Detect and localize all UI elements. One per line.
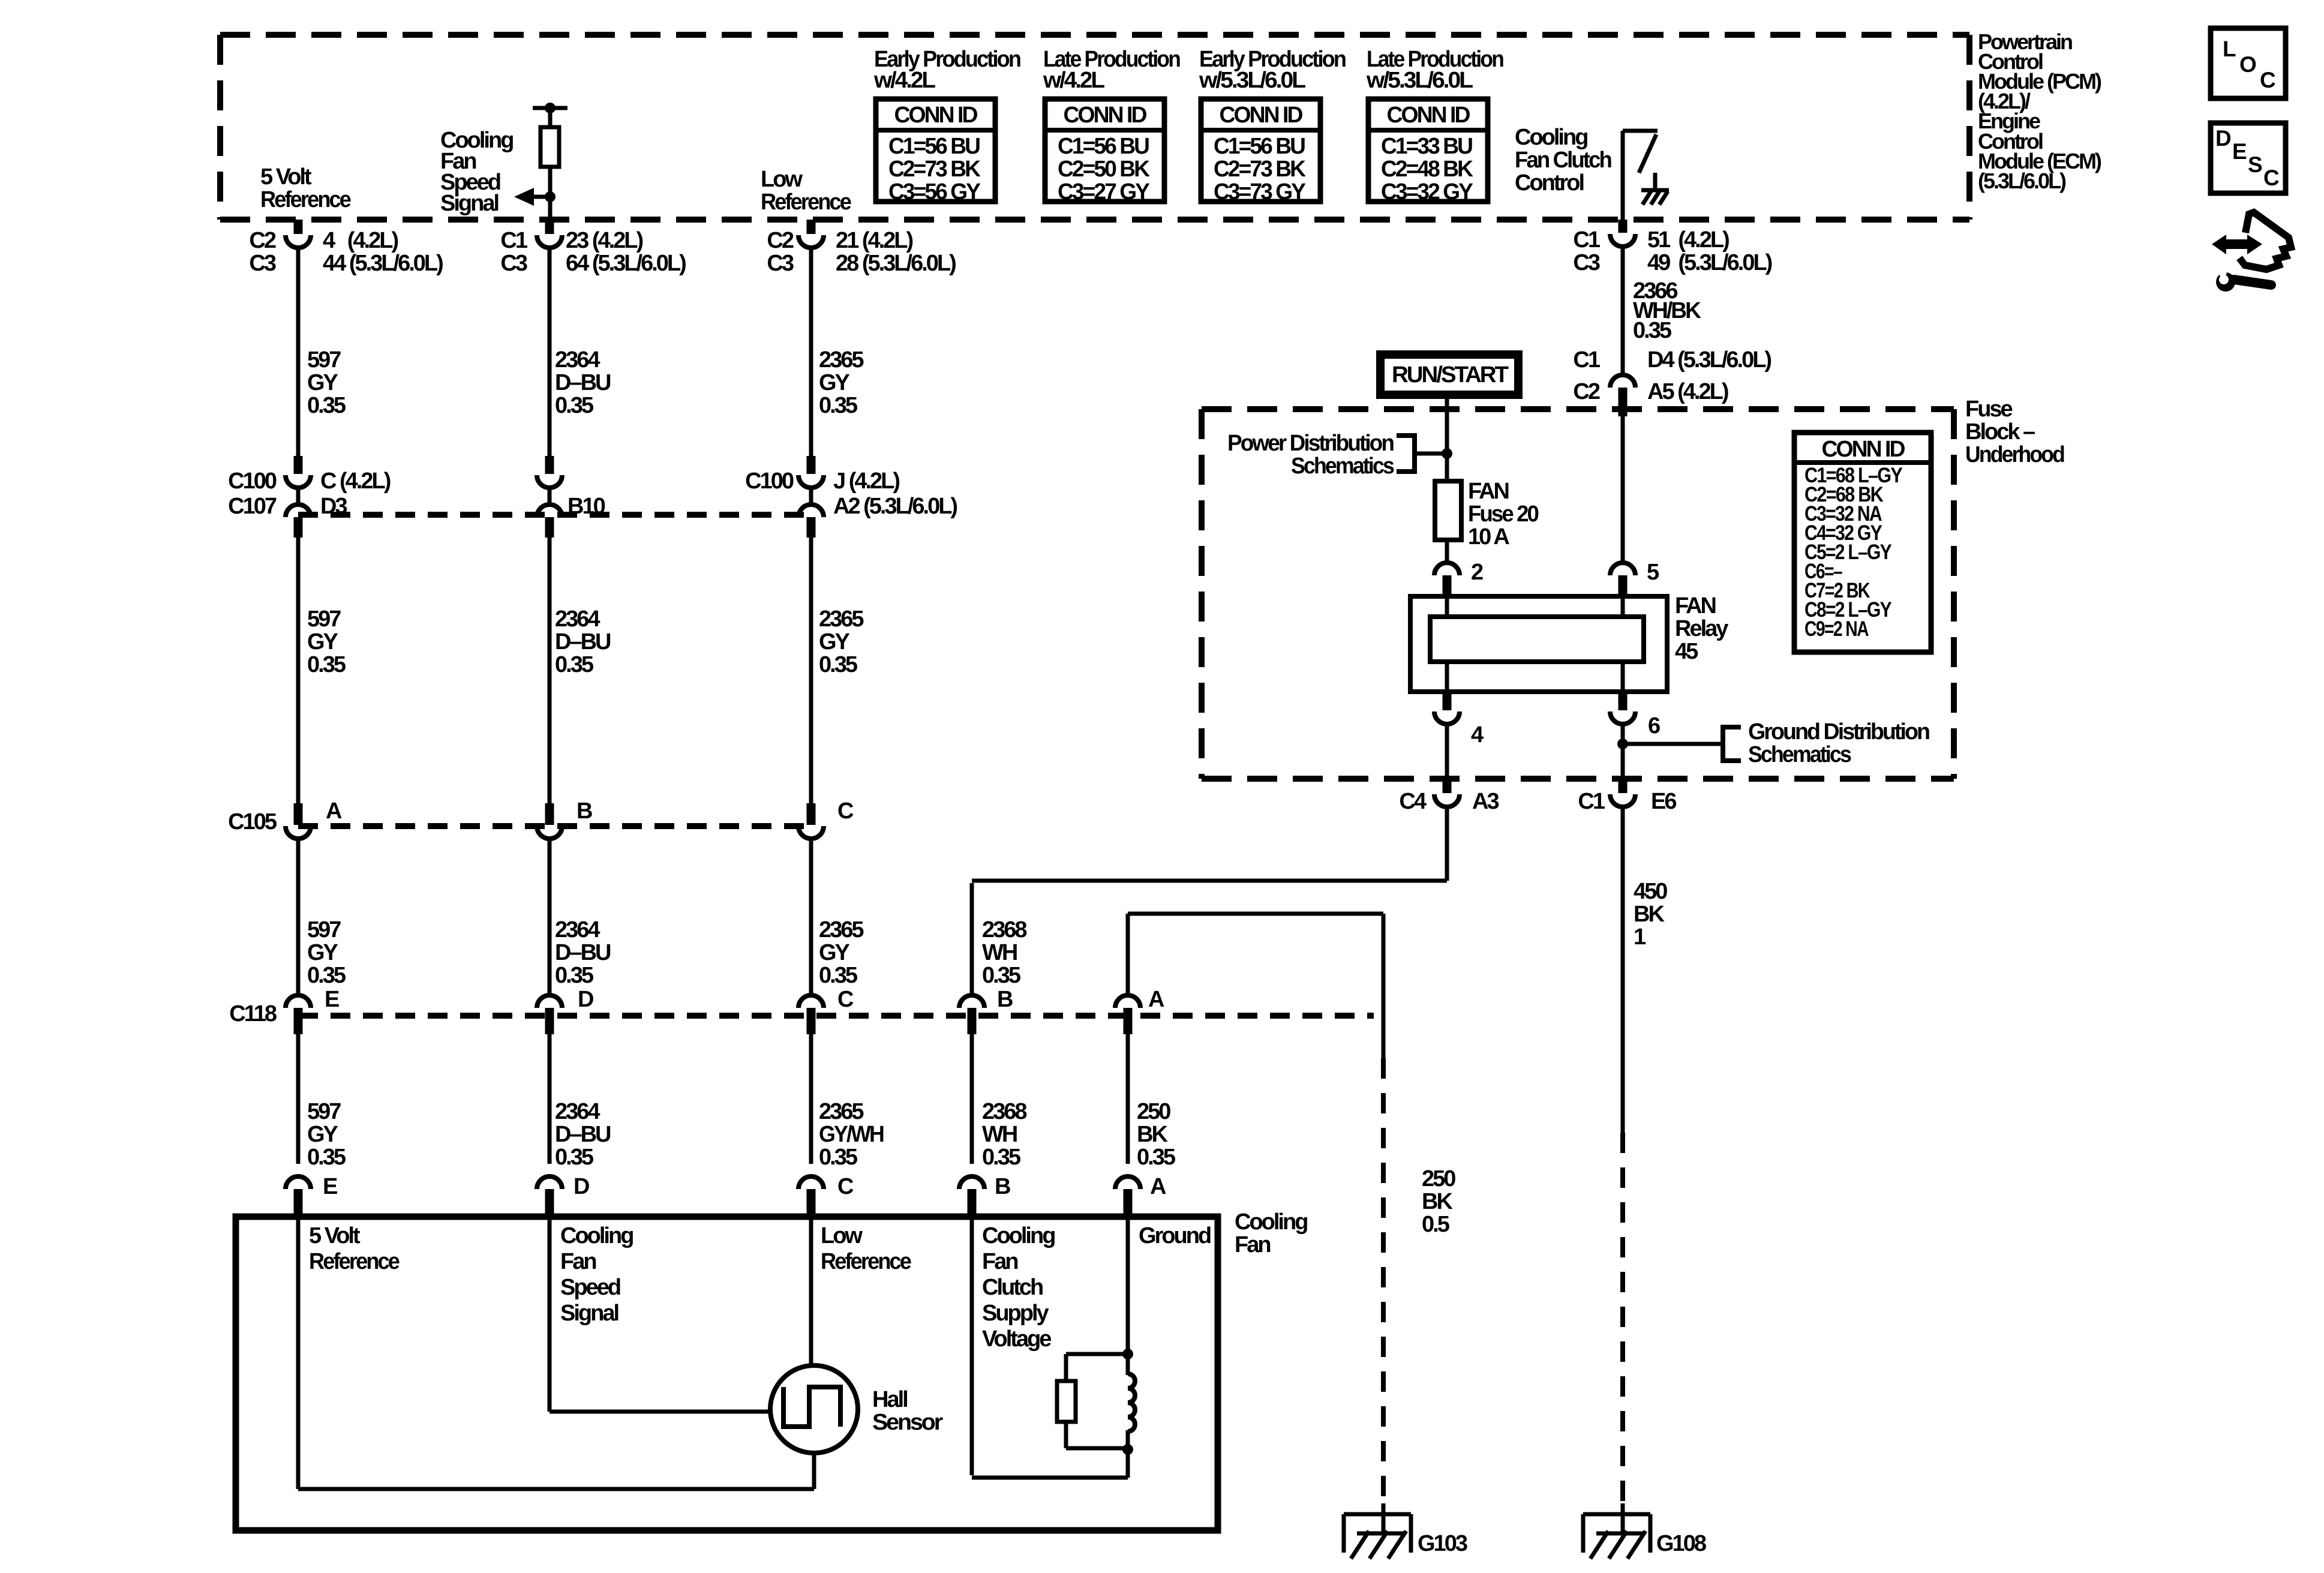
signal direction arrow (left) with junction xyxy=(514,188,556,206)
svg-text:A2 (5.3L/6.0L): A2 (5.3L/6.0L) xyxy=(833,494,957,519)
wire 2364 D-BU segment 2 (col2) xyxy=(548,538,552,803)
svg-text:Signal: Signal xyxy=(560,1301,618,1326)
connector C100/C107 pin C/D3 (col1) xyxy=(228,456,391,538)
svg-text:D: D xyxy=(578,987,593,1012)
svg-text:Block –: Block – xyxy=(1965,419,2035,445)
svg-text:Fuse: Fuse xyxy=(1965,397,2013,422)
svg-text:C: C xyxy=(2260,68,2276,92)
label: Low Reference (fan pin C) xyxy=(821,1223,911,1274)
relay pin 5 connector xyxy=(1610,560,1659,598)
wire: clutch control to relay pin 5 (through A5) xyxy=(1621,247,1625,375)
svg-text:C1=56 BU: C1=56 BU xyxy=(888,134,980,159)
label: Cooling Fan Speed Signal (fan pin D) xyxy=(560,1223,633,1326)
svg-text:D–BU: D–BU xyxy=(555,370,611,395)
svg-text:2365: 2365 xyxy=(819,917,864,942)
svg-text:C4: C4 xyxy=(1399,789,1426,814)
svg-text:C2=73 BK: C2=73 BK xyxy=(1214,157,1306,182)
svg-text:C9=2 NA: C9=2 NA xyxy=(1804,617,1869,641)
dashed harness line C118 row xyxy=(298,1013,1374,1019)
label: 2365 GY 0.35 (1) xyxy=(819,347,864,418)
svg-text:C2: C2 xyxy=(1573,379,1599,404)
connector C1/E6 (fuse block bottom right) xyxy=(1578,780,1676,814)
Fuse Block - Underhood dashed box xyxy=(1202,409,1954,779)
svg-text:A5 (4.2L): A5 (4.2L) xyxy=(1647,379,1728,404)
wire 250 BK segment (col A upper) xyxy=(1126,914,1130,995)
svg-text:10 A: 10 A xyxy=(1468,524,1509,550)
svg-text:CONN ID: CONN ID xyxy=(1064,103,1147,128)
svg-text:GY: GY xyxy=(819,629,850,655)
cooling fan connector pin A xyxy=(1115,1174,1166,1217)
svg-text:C2=50 BK: C2=50 BK xyxy=(1058,157,1150,182)
svg-text:(5.3L/6.0L): (5.3L/6.0L) xyxy=(1978,169,2066,193)
svg-text:0.35: 0.35 xyxy=(819,652,858,677)
wire: A5 to relay pin 5 xyxy=(1621,416,1625,562)
svg-text:0.35: 0.35 xyxy=(555,652,594,677)
svg-text:Low: Low xyxy=(761,167,803,192)
svg-text:GY: GY xyxy=(819,370,850,395)
cooling fan connector pin E xyxy=(286,1174,337,1217)
svg-text:GY: GY xyxy=(307,940,338,965)
svg-text:Fuse 20: Fuse 20 xyxy=(1468,502,1539,527)
RUN/START power feed box xyxy=(1380,355,1518,395)
svg-text:2364: 2364 xyxy=(555,607,600,632)
label: 250 BK 0.35 xyxy=(1137,1099,1176,1170)
svg-text:C2: C2 xyxy=(249,228,275,253)
label: FAN Fuse 20 10 A xyxy=(1468,479,1539,550)
svg-text:5 Volt: 5 Volt xyxy=(309,1223,361,1248)
conn-id label: Early Production w/5.3L/6.0L xyxy=(1199,47,1346,93)
svg-text:Cooling: Cooling xyxy=(560,1223,633,1248)
relay pin 4 connector xyxy=(1434,692,1484,748)
svg-text:0.35: 0.35 xyxy=(555,393,594,418)
svg-text:0.35: 0.35 xyxy=(307,393,346,418)
svg-text:Relay: Relay xyxy=(1675,616,1728,641)
CONN ID table 1 (Early Production w/4.2L) xyxy=(876,99,995,205)
svg-text:28 (5.3L/6.0L): 28 (5.3L/6.0L) xyxy=(836,251,956,276)
svg-text:Cooling: Cooling xyxy=(1235,1209,1307,1235)
label: 2364 D-BU 0.35 (1) xyxy=(555,347,611,418)
svg-text:B: B xyxy=(997,987,1013,1012)
svg-text:Signal: Signal xyxy=(440,191,498,216)
wire: RUN/START to FAN fuse xyxy=(1445,396,1449,481)
svg-text:E: E xyxy=(323,1174,337,1199)
svg-text:C100: C100 xyxy=(228,469,277,494)
svg-text:C2: C2 xyxy=(767,228,793,253)
svg-text:CONN ID: CONN ID xyxy=(1822,437,1905,462)
svg-text:w/5.3L/6.0L: w/5.3L/6.0L xyxy=(1199,68,1306,93)
svg-text:D–BU: D–BU xyxy=(555,1122,611,1147)
svg-text:C3: C3 xyxy=(249,251,275,276)
svg-text:Underhood: Underhood xyxy=(1965,442,2064,467)
clutch control driver switch to ground (inside PCM) xyxy=(1623,131,1669,220)
label: 5 Volt Reference (fan pin E) xyxy=(309,1223,400,1274)
connector C118 pin D (col2) xyxy=(537,987,593,1034)
svg-text:A3: A3 xyxy=(1472,789,1499,814)
conn-id label: Late Production w/4.2L xyxy=(1043,47,1180,93)
conn-id label: Late Production w/5.3L/6.0L xyxy=(1366,47,1503,93)
CONN ID table 3 (Early Production w/5.3L/6.0L) xyxy=(1201,99,1320,205)
label: 597 GY 0.35 (3) xyxy=(307,917,346,988)
svg-text:C: C xyxy=(837,1174,854,1199)
svg-text:0.35: 0.35 xyxy=(819,963,858,988)
relay pin 6 connector xyxy=(1610,692,1660,739)
svg-text:E: E xyxy=(325,987,339,1012)
svg-text:0.35: 0.35 xyxy=(819,393,858,418)
label: Cooling Fan Clutch Supply Voltage (fan pin B) xyxy=(982,1223,1055,1352)
wire 2365 GY segment 2 (col3) xyxy=(809,538,813,803)
cooling fan connector pin B xyxy=(959,1174,1010,1217)
svg-text:C3: C3 xyxy=(1573,250,1599,275)
connector C105 pin B (col2) xyxy=(537,798,592,839)
svg-text:2364: 2364 xyxy=(555,1099,600,1124)
svg-text:WH: WH xyxy=(982,1122,1017,1147)
svg-text:C2=73 BK: C2=73 BK xyxy=(888,157,981,182)
svg-text:597: 597 xyxy=(307,607,341,632)
wire 2364 D-BU segment (col2) xyxy=(548,248,552,456)
svg-text:CONN ID: CONN ID xyxy=(1220,103,1303,128)
svg-text:597: 597 xyxy=(307,347,341,373)
svg-text:Supply: Supply xyxy=(982,1301,1049,1326)
label: 2364 D-BU 0.35 (4) xyxy=(555,1099,611,1170)
label: 597 GY 0.35 (2) xyxy=(307,607,346,677)
CONN ID table 2 (Late Production w/4.2L) xyxy=(1045,99,1164,205)
svg-text:C100: C100 xyxy=(745,469,794,494)
wire: cooling fan ground to G103 (250 BK) xyxy=(1128,914,1383,1503)
wire 250 BK segment 4 (col A) xyxy=(1126,1034,1130,1164)
svg-text:1: 1 xyxy=(1634,924,1646,950)
svg-text:Cooling: Cooling xyxy=(1515,125,1587,150)
svg-text:2368: 2368 xyxy=(982,917,1026,942)
wire: pin D to hall sensor output xyxy=(550,1217,770,1412)
label: 2364 D-BU 0.35 (2) xyxy=(555,607,611,677)
svg-text:C1: C1 xyxy=(1578,789,1605,814)
wire 597 GY segment 3 (col1) xyxy=(296,839,301,995)
label: 2365 GY/WH 0.35 xyxy=(819,1099,884,1170)
svg-text:23 (4.2L): 23 (4.2L) xyxy=(566,228,643,253)
label: 2368 WH 0.35 (B upper) xyxy=(982,917,1026,988)
svg-text:w/4.2L: w/4.2L xyxy=(873,68,936,93)
wire 2365 GY/WH segment 4 (col3) xyxy=(809,1034,813,1164)
svg-text:2364: 2364 xyxy=(555,347,600,373)
svg-text:5: 5 xyxy=(1647,560,1659,585)
svg-text:D4 (5.3L/6.0L): D4 (5.3L/6.0L) xyxy=(1647,347,1771,373)
connector C4/A3 (fuse block bottom left) xyxy=(1399,780,1499,814)
svg-text:WH: WH xyxy=(982,940,1017,965)
clutch shunt resistor branch xyxy=(1057,1354,1128,1448)
wire: fuse to relay pin 2 xyxy=(1445,540,1449,562)
label: 2365 GY 0.35 (2) xyxy=(819,607,864,677)
svg-text:51 (4.2L): 51 (4.2L) xyxy=(1647,227,1729,253)
svg-text:GY: GY xyxy=(307,629,338,655)
svg-text:4 (4.2L): 4 (4.2L) xyxy=(323,228,398,253)
svg-text:C1=33 BU: C1=33 BU xyxy=(1381,134,1473,159)
svg-text:250: 250 xyxy=(1422,1166,1455,1191)
svg-text:C: C xyxy=(2263,166,2280,190)
svg-text:CONN ID: CONN ID xyxy=(894,103,978,128)
ground symbol G103 xyxy=(1344,1503,1467,1559)
clutch coil (inductor) with junction dots xyxy=(1122,1349,1135,1478)
svg-text:C1: C1 xyxy=(1573,227,1600,253)
FAN Fuse 20 10A fuse element xyxy=(1435,481,1461,540)
connector C1/C3 pin 51/49 (Clutch Control) xyxy=(1573,220,1771,275)
svg-text:0.35: 0.35 xyxy=(819,1145,858,1170)
svg-text:A: A xyxy=(1148,987,1164,1012)
svg-text:Fan: Fan xyxy=(560,1249,596,1274)
svg-text:L: L xyxy=(2223,37,2236,61)
wire 2364 D-BU segment 4 (col2) xyxy=(548,1034,552,1164)
svg-text:C1=56 BU: C1=56 BU xyxy=(1214,134,1305,159)
svg-text:2365: 2365 xyxy=(819,1099,864,1124)
wire 2364 D-BU segment 3 (col2) xyxy=(548,839,552,995)
LOC reference box xyxy=(2211,28,2286,98)
svg-text:44 (5.3L/6.0L): 44 (5.3L/6.0L) xyxy=(323,251,443,276)
cooling fan connector pin C xyxy=(798,1174,854,1217)
svg-text:C3: C3 xyxy=(500,251,527,276)
svg-text:Reference: Reference xyxy=(761,190,851,215)
svg-text:B: B xyxy=(995,1174,1010,1199)
wire: pin C to hall sensor top xyxy=(809,1217,813,1367)
svg-text:0.35: 0.35 xyxy=(1137,1145,1176,1170)
label: 450 BK 1 xyxy=(1634,879,1667,950)
svg-text:Fan: Fan xyxy=(1235,1232,1270,1257)
svg-text:C3=32 GY: C3=32 GY xyxy=(1381,179,1473,205)
svg-text:Schematics: Schematics xyxy=(1291,454,1394,479)
svg-text:w/5.3L/6.0L: w/5.3L/6.0L xyxy=(1366,68,1473,93)
big CONN ID table (fuse block) xyxy=(1794,433,1931,652)
svg-text:C118: C118 xyxy=(229,1001,277,1026)
conn-id label: Early Production w/4.2L xyxy=(873,47,1020,93)
hall sensor circle with square-wave symbol xyxy=(770,1365,858,1489)
svg-text:Ground Distribution: Ground Distribution xyxy=(1748,719,1929,745)
connector C118 pin A (col A) xyxy=(1115,987,1164,1034)
svg-text:2368: 2368 xyxy=(982,1099,1026,1124)
svg-text:2364: 2364 xyxy=(555,917,600,942)
diagnostic icon (double arrow, outline, wrench) xyxy=(2212,212,2291,292)
svg-text:CONN ID: CONN ID xyxy=(1387,103,1470,128)
wire 597 GY segment 4 (col1) xyxy=(296,1034,301,1164)
svg-text:C1: C1 xyxy=(1573,347,1600,373)
svg-text:Reference: Reference xyxy=(309,1249,400,1274)
wire: pin E to hall sensor return xyxy=(298,1217,814,1489)
svg-text:GY/WH: GY/WH xyxy=(819,1122,884,1147)
label: 250 BK 0.5 xyxy=(1422,1166,1455,1237)
connector pin B10 (col2) xyxy=(537,456,605,538)
svg-text:597: 597 xyxy=(307,917,341,942)
svg-text:A: A xyxy=(326,798,342,824)
svg-text:G108: G108 xyxy=(1656,1531,1706,1556)
svg-text:0.5: 0.5 xyxy=(1422,1212,1450,1237)
svg-text:C: C xyxy=(837,987,854,1012)
svg-text:6: 6 xyxy=(1648,713,1660,739)
svg-text:GY: GY xyxy=(307,370,338,395)
label: Low Reference (PCM pin) xyxy=(761,167,851,215)
wire 597 GY segment 2 (col1) xyxy=(296,538,301,803)
svg-text:45: 45 xyxy=(1675,639,1698,664)
wire: E6 to G108 (450 BK) xyxy=(1621,807,1625,1501)
label: 597 GY 0.35 (4) xyxy=(307,1099,346,1170)
dashed harness line C105 row xyxy=(298,823,811,829)
wire 2368 WH segment 4 (col B) xyxy=(970,1034,974,1164)
svg-text:D: D xyxy=(574,1174,589,1199)
FAN Relay 45 box xyxy=(1410,596,1667,692)
svg-text:0.35: 0.35 xyxy=(1633,318,1672,343)
label: 5 Volt Reference (PCM output) xyxy=(260,164,351,212)
wire 2368 WH segment (col B from relay) xyxy=(970,883,974,995)
connector C2/C3 pin 21/28 (Low Reference) xyxy=(767,220,956,276)
label: 2368 WH 0.35 (B lower) xyxy=(982,1099,1026,1170)
svg-text:Clutch: Clutch xyxy=(982,1275,1043,1300)
svg-text:G103: G103 xyxy=(1418,1531,1467,1556)
svg-text:D: D xyxy=(2215,126,2232,151)
svg-text:Speed: Speed xyxy=(560,1275,620,1300)
label: Ground (fan pin A) xyxy=(1139,1223,1211,1248)
svg-text:E: E xyxy=(2232,139,2247,164)
CONN ID table 4 (Late Production w/5.3L/6.0L) xyxy=(1368,99,1488,205)
svg-text:A: A xyxy=(1150,1174,1166,1199)
svg-text:5 Volt: 5 Volt xyxy=(260,164,312,190)
label: 2366 WH/BK 0.35 xyxy=(1633,278,1701,343)
wire: pin A to clutch coil top xyxy=(1126,1217,1130,1356)
connector C100 pin J/A2 (col3) xyxy=(745,456,957,538)
label: 597 GY 0.35 (1) xyxy=(307,347,346,418)
svg-text:597: 597 xyxy=(307,1099,341,1124)
svg-text:BK: BK xyxy=(1634,902,1665,927)
connector C1/C3 pin 23/64 (Fan Speed Signal) xyxy=(500,220,686,276)
resistor R (fan speed signal pull-up) with top junction bar xyxy=(533,103,568,220)
svg-text:0.35: 0.35 xyxy=(982,963,1021,988)
svg-text:O: O xyxy=(2239,52,2257,77)
label: Hall Sensor xyxy=(872,1387,943,1435)
svg-text:C107: C107 xyxy=(228,494,277,519)
svg-text:2365: 2365 xyxy=(819,607,864,632)
svg-text:64 (5.3L/6.0L): 64 (5.3L/6.0L) xyxy=(566,251,686,276)
svg-text:C1=56 BU: C1=56 BU xyxy=(1058,134,1149,159)
svg-text:Control: Control xyxy=(1515,170,1584,196)
svg-text:C2=48 BK: C2=48 BK xyxy=(1381,157,1473,182)
svg-text:C1: C1 xyxy=(500,228,527,253)
connector C118 pin B (col B) xyxy=(959,987,1013,1034)
wire 2365 GY segment 3 (col3) xyxy=(809,839,813,995)
label: 2364 D-BU 0.35 (3) xyxy=(555,917,611,988)
wire 2365 GY segment (col3) xyxy=(809,248,813,456)
connector C118 pin E (col1) xyxy=(229,987,339,1034)
label+bracket: Ground Distribution Schematics xyxy=(1623,719,1929,767)
svg-text:C: C xyxy=(837,798,854,824)
svg-text:0.35: 0.35 xyxy=(555,1145,594,1170)
svg-text:Ground: Ground xyxy=(1139,1223,1211,1248)
label: Cooling Fan Speed Signal xyxy=(440,128,513,216)
svg-text:J (4.2L): J (4.2L) xyxy=(833,469,899,494)
svg-text:Schematics: Schematics xyxy=(1748,742,1851,767)
svg-text:250: 250 xyxy=(1137,1099,1170,1124)
svg-text:C (4.2L): C (4.2L) xyxy=(320,469,391,494)
svg-text:C3=27 GY: C3=27 GY xyxy=(1058,179,1150,205)
svg-text:Reference: Reference xyxy=(260,187,351,212)
ground symbol G108 xyxy=(1583,1503,1706,1559)
wire: relay pin 4 to C4/A3 xyxy=(1445,724,1449,780)
svg-text:GY: GY xyxy=(819,940,850,965)
svg-text:Cooling: Cooling xyxy=(982,1223,1055,1248)
cooling fan connector pin D xyxy=(537,1174,589,1217)
dashed harness line C100/C107 row xyxy=(298,512,811,518)
svg-text:S: S xyxy=(2248,152,2263,177)
Cooling Fan component box xyxy=(236,1217,1218,1530)
svg-text:w/4.2L: w/4.2L xyxy=(1043,68,1105,93)
wire: relay pin 6 to C1/E6 with ground junction xyxy=(1617,724,1628,780)
svg-text:0.35: 0.35 xyxy=(555,963,594,988)
label: Fuse Block - Underhood xyxy=(1965,397,2064,467)
connector C1/C2 pin D4/A5 xyxy=(1573,347,1771,416)
DESC reference box xyxy=(2211,123,2286,193)
svg-text:GY: GY xyxy=(307,1122,338,1147)
label: 2365 GY 0.35 (3) xyxy=(819,917,864,988)
svg-text:49 (5.3L/6.0L): 49 (5.3L/6.0L) xyxy=(1647,250,1772,275)
label: FAN Relay 45 xyxy=(1675,593,1728,664)
svg-text:E6: E6 xyxy=(1651,789,1676,814)
connector C2/C3 pin 4/44 (5 Volt Reference) xyxy=(249,220,443,276)
label: Powertrain Control Module (PCM)(4.2L)/Engine Control Module (ECM)(5.3L/6.0L) xyxy=(1978,29,2101,193)
svg-text:C3=73 GY: C3=73 GY xyxy=(1214,179,1306,205)
wire 597 GY segment (col1) xyxy=(296,248,301,456)
connector C105 pin C (col3) xyxy=(798,798,854,839)
label: Cooling Fan (component name) xyxy=(1235,1209,1307,1257)
svg-text:FAN: FAN xyxy=(1675,593,1716,619)
svg-text:0.35: 0.35 xyxy=(307,1145,346,1170)
svg-text:Sensor: Sensor xyxy=(872,1410,943,1435)
svg-text:D–BU: D–BU xyxy=(555,629,611,655)
svg-text:4: 4 xyxy=(1471,722,1484,748)
svg-text:Reference: Reference xyxy=(821,1249,911,1274)
svg-text:Low: Low xyxy=(821,1223,863,1248)
label+bracket: Power Distribution Schematics xyxy=(1227,431,1452,479)
connector C105 pin A (col1) xyxy=(228,798,342,839)
wire: pin B to clutch coil bottom xyxy=(972,1217,1128,1478)
svg-text:D–BU: D–BU xyxy=(555,940,611,965)
connector C118 pin C (col3) xyxy=(798,987,854,1034)
svg-text:2365: 2365 xyxy=(819,347,864,373)
svg-text:2: 2 xyxy=(1471,560,1483,585)
PCM module dashed box (Powertrain/Engine Control Module) xyxy=(220,35,1969,220)
svg-text:C3: C3 xyxy=(767,251,793,276)
svg-text:B: B xyxy=(577,798,592,824)
svg-text:RUN/START: RUN/START xyxy=(1392,362,1509,388)
svg-text:FAN: FAN xyxy=(1468,479,1509,504)
svg-text:450: 450 xyxy=(1634,879,1667,904)
svg-text:C105: C105 xyxy=(228,809,277,834)
svg-text:Fan: Fan xyxy=(982,1249,1017,1274)
svg-text:21 (4.2L): 21 (4.2L) xyxy=(836,228,913,253)
svg-text:Power Distribution: Power Distribution xyxy=(1227,431,1394,456)
relay pin 2 connector xyxy=(1434,560,1483,598)
svg-text:Hall: Hall xyxy=(872,1387,907,1412)
svg-text:0.35: 0.35 xyxy=(982,1145,1021,1170)
svg-text:BK: BK xyxy=(1422,1189,1453,1214)
svg-text:C3=56 GY: C3=56 GY xyxy=(888,179,981,205)
svg-text:Fan Clutch: Fan Clutch xyxy=(1515,148,1611,173)
wire: A3 to cooling fan pin B xyxy=(972,807,1447,881)
svg-text:0.35: 0.35 xyxy=(307,963,346,988)
label: Cooling Fan Clutch Control xyxy=(1515,125,1611,196)
svg-text:BK: BK xyxy=(1137,1122,1168,1147)
svg-text:Voltage: Voltage xyxy=(982,1326,1051,1352)
svg-text:0.35: 0.35 xyxy=(307,652,346,677)
